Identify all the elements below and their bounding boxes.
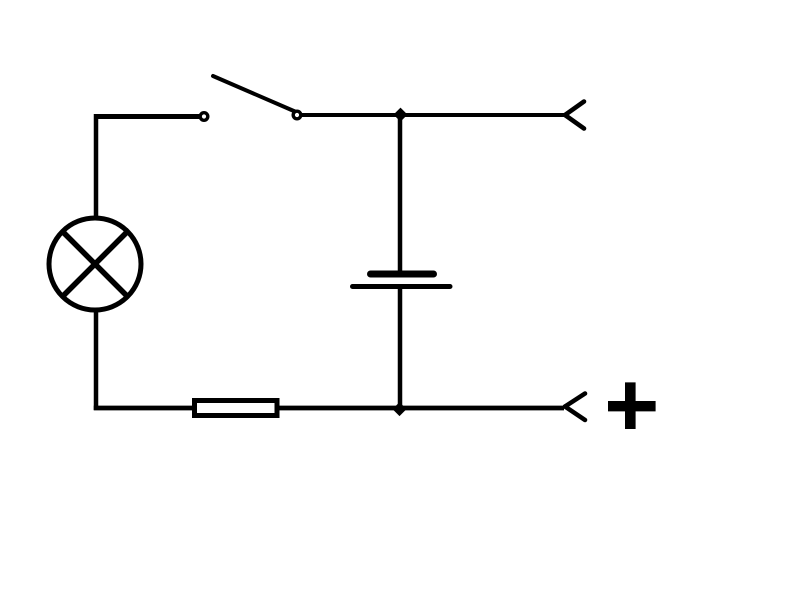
wire capacitor lower vertical [398,286,403,408]
wire left vertical [94,114,99,410]
junction node bottom [392,402,406,416]
wire top horizontal [302,113,564,117]
resistor R1 [195,401,278,416]
junction node top [393,108,407,122]
wire top-left horizontal [96,114,200,119]
lamp L1 [49,218,141,310]
switch S1 [200,76,301,120]
connector terminal bottom-right [565,394,585,421]
wire bottom horizontal [94,406,564,411]
connector terminal top-right [565,102,584,129]
plus polarity label [608,382,656,429]
capacitor C1 [353,274,451,287]
wire capacitor upper vertical [398,115,403,273]
